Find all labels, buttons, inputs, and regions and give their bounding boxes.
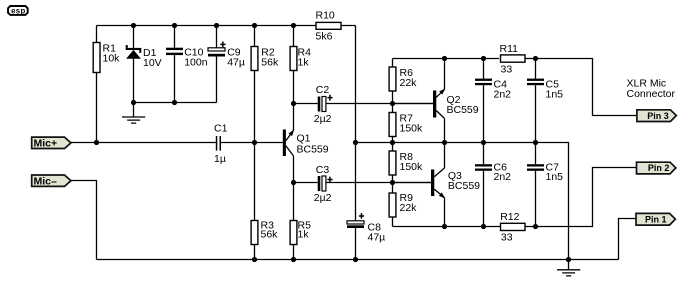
svg-text:56k: 56k bbox=[261, 57, 279, 69]
resistor R8 bbox=[389, 143, 423, 183]
svg-text:Pin 1: Pin 1 bbox=[645, 214, 667, 224]
svg-text:150k: 150k bbox=[400, 161, 424, 173]
resistor R4 bbox=[290, 26, 311, 131]
resistor R5 bbox=[290, 220, 311, 260]
svg-text:10k: 10k bbox=[103, 53, 121, 65]
svg-text:1µ: 1µ bbox=[214, 153, 226, 165]
svg-text:C1: C1 bbox=[214, 123, 228, 135]
svg-text:Pin 2: Pin 2 bbox=[648, 163, 670, 173]
svg-text:1k: 1k bbox=[298, 229, 310, 241]
svg-text:BC559: BC559 bbox=[447, 104, 479, 116]
svg-text:R11: R11 bbox=[500, 43, 519, 55]
svg-text:C2: C2 bbox=[316, 84, 330, 96]
svg-text:BC559: BC559 bbox=[297, 144, 329, 156]
svg-text:R12: R12 bbox=[500, 211, 519, 223]
label XLR Mic Connector bbox=[627, 78, 676, 101]
ground bbox=[122, 103, 145, 124]
resistor R11 bbox=[500, 43, 526, 76]
svg-text:56k: 56k bbox=[261, 229, 279, 241]
resistor R1 bbox=[93, 26, 120, 143]
svg-text:2n2: 2n2 bbox=[494, 89, 512, 101]
resistor R2 bbox=[251, 26, 279, 143]
capacitor C10 bbox=[166, 26, 208, 103]
resistor R6 bbox=[389, 59, 417, 104]
svg-text:2µ2: 2µ2 bbox=[314, 113, 332, 125]
resistor R10 bbox=[316, 10, 342, 43]
wire Mic+ line bbox=[71, 142, 283, 144]
capacitor C5 bbox=[527, 59, 563, 143]
svg-text:Mic+: Mic+ bbox=[34, 137, 58, 149]
svg-text:33: 33 bbox=[501, 64, 513, 76]
transistor Q3 BC559 bbox=[393, 143, 481, 227]
wire Mic- to bottom rail bbox=[71, 181, 97, 260]
wire top-right rail bbox=[393, 59, 637, 116]
capacitor C4 bbox=[475, 59, 511, 143]
svg-text:33: 33 bbox=[501, 232, 513, 244]
wire top supply bus bbox=[97, 25, 356, 27]
transistor Q2 BC559 bbox=[393, 59, 479, 143]
svg-text:1n5: 1n5 bbox=[546, 89, 564, 101]
port Pin 3 bbox=[637, 110, 676, 122]
svg-text:BC559: BC559 bbox=[448, 180, 480, 192]
zener diode D1 bbox=[126, 26, 162, 103]
transistor Q1 BC559 bbox=[283, 130, 329, 221]
resistor R3 bbox=[251, 143, 278, 260]
resistor R9 bbox=[389, 183, 417, 227]
svg-text:Mic–: Mic– bbox=[34, 175, 58, 187]
svg-text:47µ: 47µ bbox=[227, 57, 245, 69]
wire R10 to C8 vertical bbox=[355, 26, 357, 221]
capacitor C6 bbox=[475, 143, 511, 227]
svg-text:150k: 150k bbox=[400, 123, 424, 135]
svg-text:5k6: 5k6 bbox=[316, 31, 333, 43]
svg-text:Pin 3: Pin 3 bbox=[647, 111, 669, 121]
svg-text:22k: 22k bbox=[400, 202, 418, 214]
port Mic- bbox=[32, 175, 71, 187]
wire Pin1 bbox=[619, 219, 637, 260]
svg-text:C3: C3 bbox=[316, 164, 330, 176]
port Mic+ bbox=[32, 137, 71, 149]
wire mid rail bbox=[356, 143, 569, 260]
capacitor C1 bbox=[214, 123, 228, 166]
svg-text:47µ: 47µ bbox=[368, 232, 386, 244]
svg-text:10V: 10V bbox=[143, 57, 162, 69]
svg-text:esp: esp bbox=[11, 6, 26, 15]
svg-text:1n5: 1n5 bbox=[546, 171, 564, 183]
port Pin 1 bbox=[636, 213, 675, 225]
svg-text:2n2: 2n2 bbox=[494, 171, 512, 183]
wire R12 line bbox=[393, 168, 637, 227]
ESP logo bbox=[8, 6, 28, 15]
capacitor C7 bbox=[527, 143, 563, 227]
svg-text:1k: 1k bbox=[298, 57, 310, 69]
svg-text:R10: R10 bbox=[316, 10, 335, 22]
capacitor C3 (electrolytic) bbox=[294, 164, 432, 204]
wire bottom rail bbox=[97, 259, 619, 261]
capacitor C2 (electrolytic) bbox=[294, 84, 434, 125]
port Pin 2 bbox=[637, 162, 676, 174]
svg-text:Connector: Connector bbox=[627, 88, 676, 100]
resistor R12 bbox=[500, 211, 525, 244]
ground right bbox=[557, 260, 580, 276]
svg-text:2µ2: 2µ2 bbox=[314, 192, 332, 204]
wire ground bus under D1/C10/C9 bbox=[134, 102, 217, 104]
svg-text:22k: 22k bbox=[400, 77, 418, 89]
capacitor C9 (electrolytic) bbox=[208, 26, 245, 103]
resistor R7 bbox=[389, 104, 423, 143]
svg-text:100n: 100n bbox=[184, 57, 208, 69]
capacitor C8 (electrolytic) bbox=[347, 213, 385, 259]
